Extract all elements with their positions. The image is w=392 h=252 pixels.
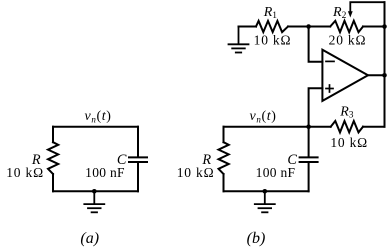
svg-text:(b): (b) (247, 230, 266, 247)
svg-text:20 kΩ: 20 kΩ (329, 33, 367, 48)
svg-text:10 kΩ: 10 kΩ (330, 135, 368, 150)
svg-text:R1: R1 (263, 5, 278, 21)
svg-text:vn(t): vn(t) (85, 109, 112, 125)
svg-text:10 kΩ: 10 kΩ (254, 33, 292, 48)
svg-text:R3: R3 (339, 105, 354, 121)
svg-text:100 nF: 100 nF (256, 165, 296, 180)
svg-text:10 kΩ: 10 kΩ (177, 165, 215, 180)
svg-text:100 nF: 100 nF (85, 165, 125, 180)
svg-text:10 kΩ: 10 kΩ (6, 165, 44, 180)
svg-text:R2: R2 (332, 5, 347, 21)
svg-text:(a): (a) (80, 230, 99, 247)
svg-text:vn(t): vn(t) (250, 109, 277, 125)
